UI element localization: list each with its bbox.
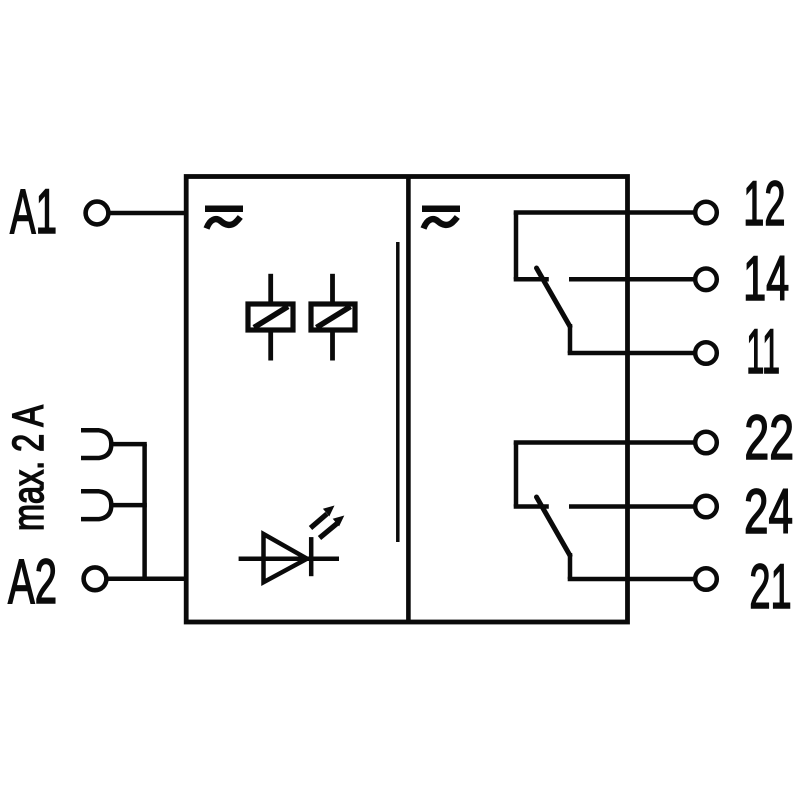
switch 2: blade [537,497,571,556]
AC symbol right: bar [422,206,460,213]
switch 1: NC contact stub [514,277,549,282]
fork terminal 2 [81,491,111,519]
fork wire 1 [111,442,147,447]
svg-text:A2: A2 [8,547,57,617]
coil K2 [311,304,355,330]
svg-text:max. 2 A: max. 2 A [5,405,53,531]
fork wire 2 [111,503,147,508]
LED triangle [264,534,308,582]
AC symbol left: bar [205,206,243,213]
terminal 11 circle [695,342,717,364]
switch 1: common vertical [568,324,573,353]
switch 1: vertical from 12 wire [514,213,519,280]
switch 2: NC contact stub [514,504,549,509]
isolation line [396,242,400,542]
svg-text:22: 22 [744,403,794,473]
LED arrow 1 [311,514,328,528]
svg-text:24: 24 [744,477,793,547]
terminal 14 circle [695,269,717,291]
coil K1 [248,304,293,330]
switch 2: wire to terminal 22 [514,440,694,445]
terminal 21 circle [695,568,717,590]
terminal 22 circle [695,432,717,454]
wire A2 to box [106,577,188,582]
svg-text:11: 11 [746,317,780,387]
bus junction vertical [142,444,147,579]
coil K1 diagonal [254,307,288,328]
switch 2: wire to terminal 21 [568,577,694,582]
switch 1: wire to terminal 14 [569,277,694,282]
terminal A2 circle [84,567,107,590]
coil K2 diagonal [317,307,351,328]
switch 1: wire to terminal 12 [514,210,694,215]
svg-text:14: 14 [743,244,789,314]
switch 1: wire to terminal 11 [568,351,694,356]
LED cathode bar [309,537,314,576]
terminal A1 circle [86,202,109,225]
switch 2: common vertical [568,553,573,579]
divider between coil and contact sections [406,177,411,623]
wire A1 to box [108,211,188,216]
AC symbol right: tilde [424,217,458,229]
terminal 12 circle [695,202,717,224]
relay module box [186,177,627,623]
coil K2 bottom lead [330,330,335,361]
coil K1 bottom lead [268,330,273,361]
svg-text:A1: A1 [10,177,57,247]
AC symbol left: tilde [207,217,241,229]
svg-text:12: 12 [743,169,785,239]
coil K1 top lead [268,274,273,304]
switch 2: vertical from 22 wire [514,443,519,507]
switch 1: blade [537,268,571,327]
coil K2 top lead [330,274,335,304]
LED wire [239,556,339,561]
LED arrow 2 [320,524,338,539]
switch 2: wire to terminal 24 [569,504,694,509]
terminal 24 circle [695,496,717,518]
fork terminal 1 [81,430,111,458]
svg-text:21: 21 [749,552,791,622]
